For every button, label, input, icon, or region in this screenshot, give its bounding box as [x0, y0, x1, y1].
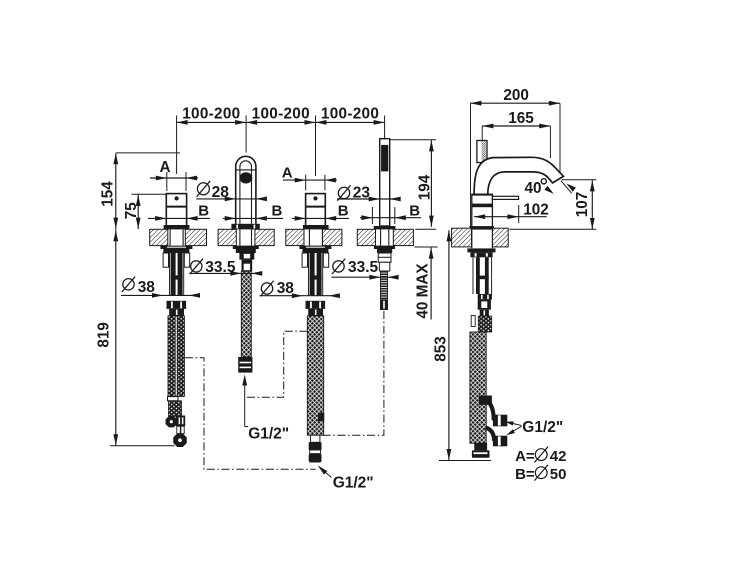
svg-text:194: 194	[417, 174, 434, 200]
angle annotation arrow 1	[544, 186, 553, 194]
hand shower escutcheon flange	[374, 226, 396, 229]
spout locknut	[233, 246, 259, 249]
valve 2 stem through deck	[308, 229, 310, 245]
valve 2 lower nut	[306, 301, 326, 309]
valve 2 handle divider	[306, 206, 326, 208]
label G1/2 mixer leaders	[509, 423, 522, 426]
valve 1 stem block	[169, 309, 184, 316]
label diameter 38 first symbol	[123, 279, 134, 290]
valve 1 flex hose	[168, 316, 184, 397]
valve 2 escutcheon flange	[303, 225, 329, 229]
svg-text:853: 853	[432, 336, 449, 362]
svg-text:B: B	[338, 202, 349, 219]
mixer elbow 1	[486, 401, 494, 421]
svg-text:G1/2": G1/2"	[522, 419, 563, 436]
valve 1 locknut	[160, 246, 192, 249]
svg-text:75: 75	[123, 202, 140, 220]
hand shower dimension B line	[360, 217, 421, 219]
mixer block	[478, 300, 491, 310]
hand shower threaded rod	[380, 271, 387, 300]
svg-text:50: 50	[550, 466, 567, 483]
mixer hose end fitting	[474, 443, 487, 450]
valve 1 handle body	[166, 194, 186, 226]
hand shower locknut	[374, 246, 395, 249]
label diameter 33.5 first leader	[189, 272, 262, 274]
valve 1 escutcheon flange	[164, 225, 190, 229]
valve 1 dimension B line	[148, 217, 210, 219]
svg-text:40 MAX: 40 MAX	[414, 263, 431, 319]
hand shower end block	[380, 300, 388, 310]
dimension 194 top reference	[390, 139, 436, 141]
dimension 819 line	[115, 230, 117, 446]
label diameter 33.5 second symbol	[333, 261, 344, 272]
dimension 194 line	[430, 140, 432, 227]
spout flex hose	[241, 271, 251, 357]
hand shower stem through deck	[380, 229, 382, 245]
dimension 200 line	[470, 102, 560, 104]
mixer upper hose section	[478, 316, 491, 332]
dimension 154 line	[115, 153, 117, 229]
svg-text:100-200: 100-200	[321, 106, 379, 123]
valve 1 end fitting G1/2	[173, 433, 186, 446]
mixer neck	[480, 310, 489, 316]
mixer left pipe	[471, 316, 475, 327]
svg-text:B=: B=	[515, 466, 535, 483]
svg-text:B: B	[198, 202, 209, 219]
svg-text:B: B	[272, 202, 283, 219]
dimension 107 top reference	[562, 179, 597, 181]
valve 1 lower nut	[167, 301, 187, 309]
valve 2 stem block	[308, 309, 323, 316]
mixer lever handle	[492, 196, 518, 199]
deck section mixer	[452, 228, 472, 247]
svg-text:40: 40	[525, 180, 542, 197]
mixer body band	[472, 204, 493, 208]
valve 1 dimension A ticks	[166, 172, 168, 191]
spout adapter	[242, 260, 253, 272]
svg-text:107: 107	[574, 192, 591, 218]
reference line spout top height	[116, 152, 180, 154]
extension line spout center	[245, 116, 247, 153]
hand shower dimension B ticks	[371, 207, 373, 224]
valve 2 dimension B ticks	[305, 207, 307, 224]
angle annotation leader	[561, 181, 572, 194]
valve 2 mounting ears	[302, 253, 307, 267]
valve 2 dimension B line	[292, 217, 349, 219]
valve 2 flex hose	[307, 316, 323, 435]
valve 2 hose clip	[318, 413, 324, 422]
svg-text:100-200: 100-200	[182, 106, 240, 123]
mixer body bars	[476, 257, 480, 294]
dimension 40 MAX line	[430, 248, 432, 320]
spout stem through deck	[239, 229, 241, 245]
valve 2 locknut	[299, 246, 331, 249]
spout outlet hole	[240, 172, 253, 183]
extension line valve 1 center	[176, 116, 178, 175]
label diameter 28 symbol	[197, 183, 209, 195]
valve 1 hose lower	[169, 401, 182, 417]
reference line 819 bottom	[110, 445, 175, 447]
svg-text:G1/2": G1/2"	[333, 475, 374, 492]
label diameter 23 symbol	[338, 187, 349, 198]
valve 1 elbow nut	[166, 416, 177, 427]
svg-text:B: B	[409, 202, 420, 219]
hand shower wand	[380, 139, 390, 226]
mixer branch fitting	[479, 396, 492, 405]
svg-text:38: 38	[277, 280, 295, 297]
spout tube inner lines	[240, 161, 252, 224]
angle annotation arrow 2	[566, 184, 575, 192]
label G1/2 spout leader	[244, 381, 246, 427]
dimension 200 extension right	[559, 103, 561, 177]
svg-text:100-200: 100-200	[252, 106, 310, 123]
svg-text:A=: A=	[515, 448, 535, 465]
valve 1 dimension A line	[150, 177, 198, 179]
reference line handle top height	[132, 193, 167, 195]
spout tube outline	[236, 156, 256, 224]
valve 1 hose coupling	[168, 397, 179, 401]
dimension 194 bottom reference	[415, 228, 436, 230]
dimension 165 extension left	[481, 126, 483, 140]
valve 1 body bars	[169, 253, 171, 295]
dimension 853 bottom reference	[439, 460, 491, 462]
centerline hand shower to valve 2 connection	[321, 311, 384, 435]
dimension 75 line	[137, 195, 139, 230]
extension line hand shower center	[384, 116, 386, 139]
svg-text:102: 102	[523, 201, 549, 218]
mixer elbow 1 nut G1/2	[493, 415, 507, 427]
valve 2 end fitting G1/2	[309, 442, 322, 450]
dimension 102 line	[474, 216, 547, 218]
mixer elbow 2 nut G1/2	[493, 436, 507, 447]
mixer locknut	[467, 248, 495, 252]
label diameter 38 second leader	[260, 295, 340, 297]
mixer body	[472, 194, 493, 227]
spout fitting block	[239, 253, 254, 260]
svg-text:200: 200	[503, 87, 529, 104]
valve 1 stem through deck	[169, 229, 171, 245]
valve 1 mounting ears	[163, 253, 168, 267]
mixer body side lines	[472, 257, 474, 294]
dimension 107 line	[591, 180, 593, 229]
spout tube cross line	[236, 169, 256, 171]
mixer lower nut	[478, 294, 492, 300]
svg-text:A: A	[282, 164, 293, 181]
valve 2 dimension A line	[283, 179, 337, 181]
dimension 165 extension right	[549, 126, 551, 158]
hand shower pipe	[378, 253, 391, 262]
svg-text:33.5: 33.5	[348, 259, 379, 276]
svg-text:819: 819	[96, 322, 113, 348]
valve 1 handle dot	[175, 196, 179, 200]
label diameter 28 dimension line	[196, 198, 264, 200]
spout escutcheon flange	[231, 224, 259, 230]
dimension 102 tick	[518, 205, 520, 223]
spout hose end fitting G1/2	[238, 357, 252, 373]
valve 1 handle divider	[166, 206, 186, 208]
label diameter 33.5 second leader	[332, 276, 399, 278]
valve 1 hose end block	[176, 416, 185, 427]
deck top reference line right	[509, 228, 596, 230]
valve 2 dimension A ticks	[305, 175, 307, 191]
dimension chain 100-200 x3 line	[177, 121, 385, 123]
label G1/2 valve 2 leader	[322, 469, 332, 477]
label diameter 38 second symbol	[261, 283, 272, 294]
label diameter 33.5 first symbol	[191, 261, 202, 272]
valve 1 dimension B ticks	[165, 207, 167, 224]
extension line valve 2 center	[315, 116, 317, 177]
dimension 853 line	[448, 230, 450, 460]
spout dimension B line	[223, 217, 283, 219]
dimension 165 line	[482, 125, 550, 127]
hand shower grip	[381, 145, 388, 172]
mixer flex hose	[470, 332, 486, 443]
valve 2 handle body	[306, 194, 326, 226]
valve 1 end neck	[177, 426, 181, 433]
label diameter 38 first leader	[121, 294, 200, 296]
deck section spout	[218, 229, 236, 245]
valve 2 body bars	[308, 253, 310, 295]
svg-text:154: 154	[99, 181, 116, 207]
svg-text:165: 165	[508, 110, 534, 127]
dimension 40 MAX reference line	[415, 246, 438, 248]
mixer escutcheon flange	[469, 226, 494, 230]
svg-text:42: 42	[550, 448, 567, 465]
deck section hand shower	[357, 229, 375, 245]
mixer stick handle	[477, 141, 487, 163]
dimension 200 extension left	[470, 103, 472, 228]
mixer elbow 2	[486, 428, 495, 441]
centerline valve 2 to spout connection	[246, 331, 308, 397]
svg-text:G1/2": G1/2"	[248, 426, 289, 443]
label diameter 23 leader	[337, 198, 401, 200]
dimension chain arrows	[177, 120, 188, 125]
spout dimension B ticks	[235, 207, 237, 224]
deck section valve 1	[150, 229, 168, 245]
mixer spout tube	[474, 157, 563, 194]
valve 2 handle dot	[313, 196, 317, 200]
valve 2 hose neck	[310, 435, 320, 442]
deck section valve 2	[286, 229, 304, 245]
centerline valve 1 to valve 2 connection	[185, 358, 316, 470]
mixer body through deck	[471, 230, 473, 249]
svg-text:A: A	[160, 159, 171, 176]
